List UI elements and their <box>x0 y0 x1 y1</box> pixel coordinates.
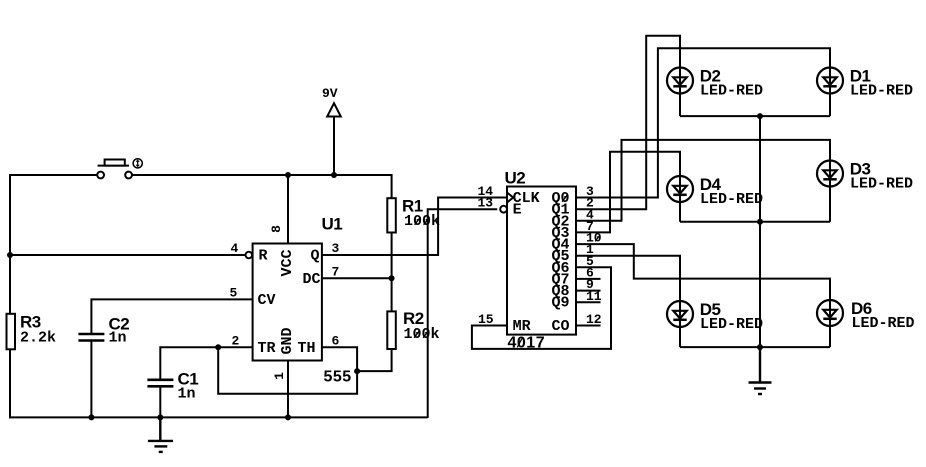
svg-text:R: R <box>259 248 268 265</box>
wire Q2 to D3 <box>576 140 830 222</box>
wire top rail button to R1 corner <box>132 174 392 176</box>
ic U1 555 box <box>253 244 322 361</box>
svg-text:7: 7 <box>332 265 340 280</box>
svg-text:3: 3 <box>332 241 340 256</box>
junction node VCC rail 9V <box>331 172 337 178</box>
svg-text:1n: 1n <box>178 386 196 403</box>
svg-text:VCC: VCC <box>279 249 296 276</box>
resistor R3 <box>7 314 16 350</box>
wire Q0 to D1 <box>576 48 830 197</box>
wire TH pin 6 <box>322 347 357 371</box>
junction node left rail reset <box>7 252 13 258</box>
wire TR wire to C1 <box>160 347 252 379</box>
clock triangle pin 14 <box>507 193 513 203</box>
svg-text:15: 15 <box>478 312 494 327</box>
svg-text:TR: TR <box>258 340 276 357</box>
svg-text:LED-RED: LED-RED <box>700 316 763 333</box>
led D6 <box>817 300 843 326</box>
led D3 <box>817 161 843 187</box>
svg-text:5: 5 <box>230 286 238 301</box>
svg-text:13: 13 <box>478 196 494 211</box>
wire DC pin 7 <box>322 277 392 279</box>
svg-text:2: 2 <box>232 334 240 349</box>
svg-text:U1: U1 <box>322 215 343 234</box>
wire C1 bottom <box>159 386 161 417</box>
junction node C1 ground rail <box>157 414 163 420</box>
inverter bubble pin 13 <box>500 206 507 213</box>
wire LED cathode bus <box>759 116 761 347</box>
wire LED row2 cathode <box>680 221 830 223</box>
svg-text:Q: Q <box>311 248 320 265</box>
svg-text:4017: 4017 <box>508 335 546 352</box>
wire CV to C2 <box>91 299 252 333</box>
capacitor C1 <box>147 380 173 387</box>
wire MR to Q6 loop <box>472 267 611 349</box>
ic U2 4017 box <box>507 187 576 335</box>
svg-text:LED-RED: LED-RED <box>850 83 913 100</box>
wire Q5 to D5 <box>576 256 680 347</box>
svg-text:LED-RED: LED-RED <box>700 191 763 208</box>
wire TH to TR link <box>218 347 357 394</box>
svg-text:DC: DC <box>303 271 321 288</box>
inverter bubble pin 4 <box>246 252 253 259</box>
wire 555 pin 8 VCC riser <box>287 175 289 244</box>
junction node pin1 rail <box>285 414 291 420</box>
svg-text:MR: MR <box>513 318 531 335</box>
svg-text:9V: 9V <box>322 86 338 101</box>
svg-text:555: 555 <box>324 369 352 386</box>
wire Q4 to D6 <box>576 244 830 347</box>
svg-text:1: 1 <box>272 372 287 380</box>
wire 555 pin 4 reset wire <box>10 254 246 256</box>
wire E enable to ground riser <box>428 209 498 418</box>
svg-text:4: 4 <box>231 241 239 256</box>
led D1 <box>817 68 843 94</box>
wire left rail vertical <box>9 174 11 418</box>
led D2 <box>667 68 693 94</box>
wire LED row1 cathode <box>680 115 830 117</box>
svg-text:U2: U2 <box>505 169 526 188</box>
svg-text:12: 12 <box>586 312 602 327</box>
wire 9V stem <box>333 116 335 175</box>
junction node row1 bus <box>757 113 763 119</box>
ground left <box>148 417 173 452</box>
wire R1 R2 chain vertical <box>357 174 392 371</box>
svg-text:LED-RED: LED-RED <box>852 315 915 332</box>
wire CO stub <box>576 325 601 327</box>
ground right <box>749 347 772 394</box>
wire Q9 stub <box>576 301 601 303</box>
junction node C2 rail <box>88 414 94 420</box>
junction node row3 bus <box>757 344 763 350</box>
svg-text:8: 8 <box>269 225 284 233</box>
svg-text:11: 11 <box>586 289 602 304</box>
wire Q output pin 3 <box>322 254 438 256</box>
junction node row2 bus <box>757 219 763 225</box>
wire Q3 to D4 <box>576 152 680 233</box>
wire LED row3 cathode <box>680 346 830 348</box>
resistor R1 <box>387 198 396 232</box>
wire Q7 stub <box>576 278 601 280</box>
wire CLK riser from Q <box>438 198 507 257</box>
junction node DC R1 R2 <box>389 275 395 281</box>
capacitor C2 <box>78 334 104 341</box>
resistor R2 <box>387 311 396 349</box>
svg-text:CV: CV <box>258 292 276 309</box>
svg-text:E: E <box>513 202 522 219</box>
svg-text:6: 6 <box>332 334 340 349</box>
wire top rail left of button <box>10 174 98 176</box>
svg-text:GND: GND <box>279 327 296 354</box>
svg-text:CO: CO <box>552 318 570 335</box>
wire Q1 to D2 <box>576 36 680 209</box>
svg-text:100k: 100k <box>404 213 440 230</box>
led D4 <box>667 176 693 202</box>
svg-text:1n: 1n <box>109 330 127 347</box>
junction node VCC rail pin8 <box>285 172 291 178</box>
power 9V arrow <box>327 103 341 116</box>
svg-text:LED-RED: LED-RED <box>850 176 913 193</box>
led D5 <box>667 301 693 327</box>
svg-text:TH: TH <box>298 340 316 357</box>
wire Q8 stub <box>576 290 601 292</box>
push button SW <box>97 159 142 179</box>
junction node TH R2 <box>354 368 360 374</box>
wire bottom rail <box>9 416 428 418</box>
svg-text:100k: 100k <box>404 326 440 343</box>
wire 555 pin 1 GND riser <box>287 361 289 418</box>
slashed zeros overlay <box>414 194 600 347</box>
svg-text:Q9: Q9 <box>552 295 570 312</box>
svg-text:LED-RED: LED-RED <box>700 83 763 100</box>
svg-text:2.2k: 2.2k <box>20 330 56 347</box>
wire C2 bottom <box>90 340 92 417</box>
junction node TR link <box>215 344 221 350</box>
